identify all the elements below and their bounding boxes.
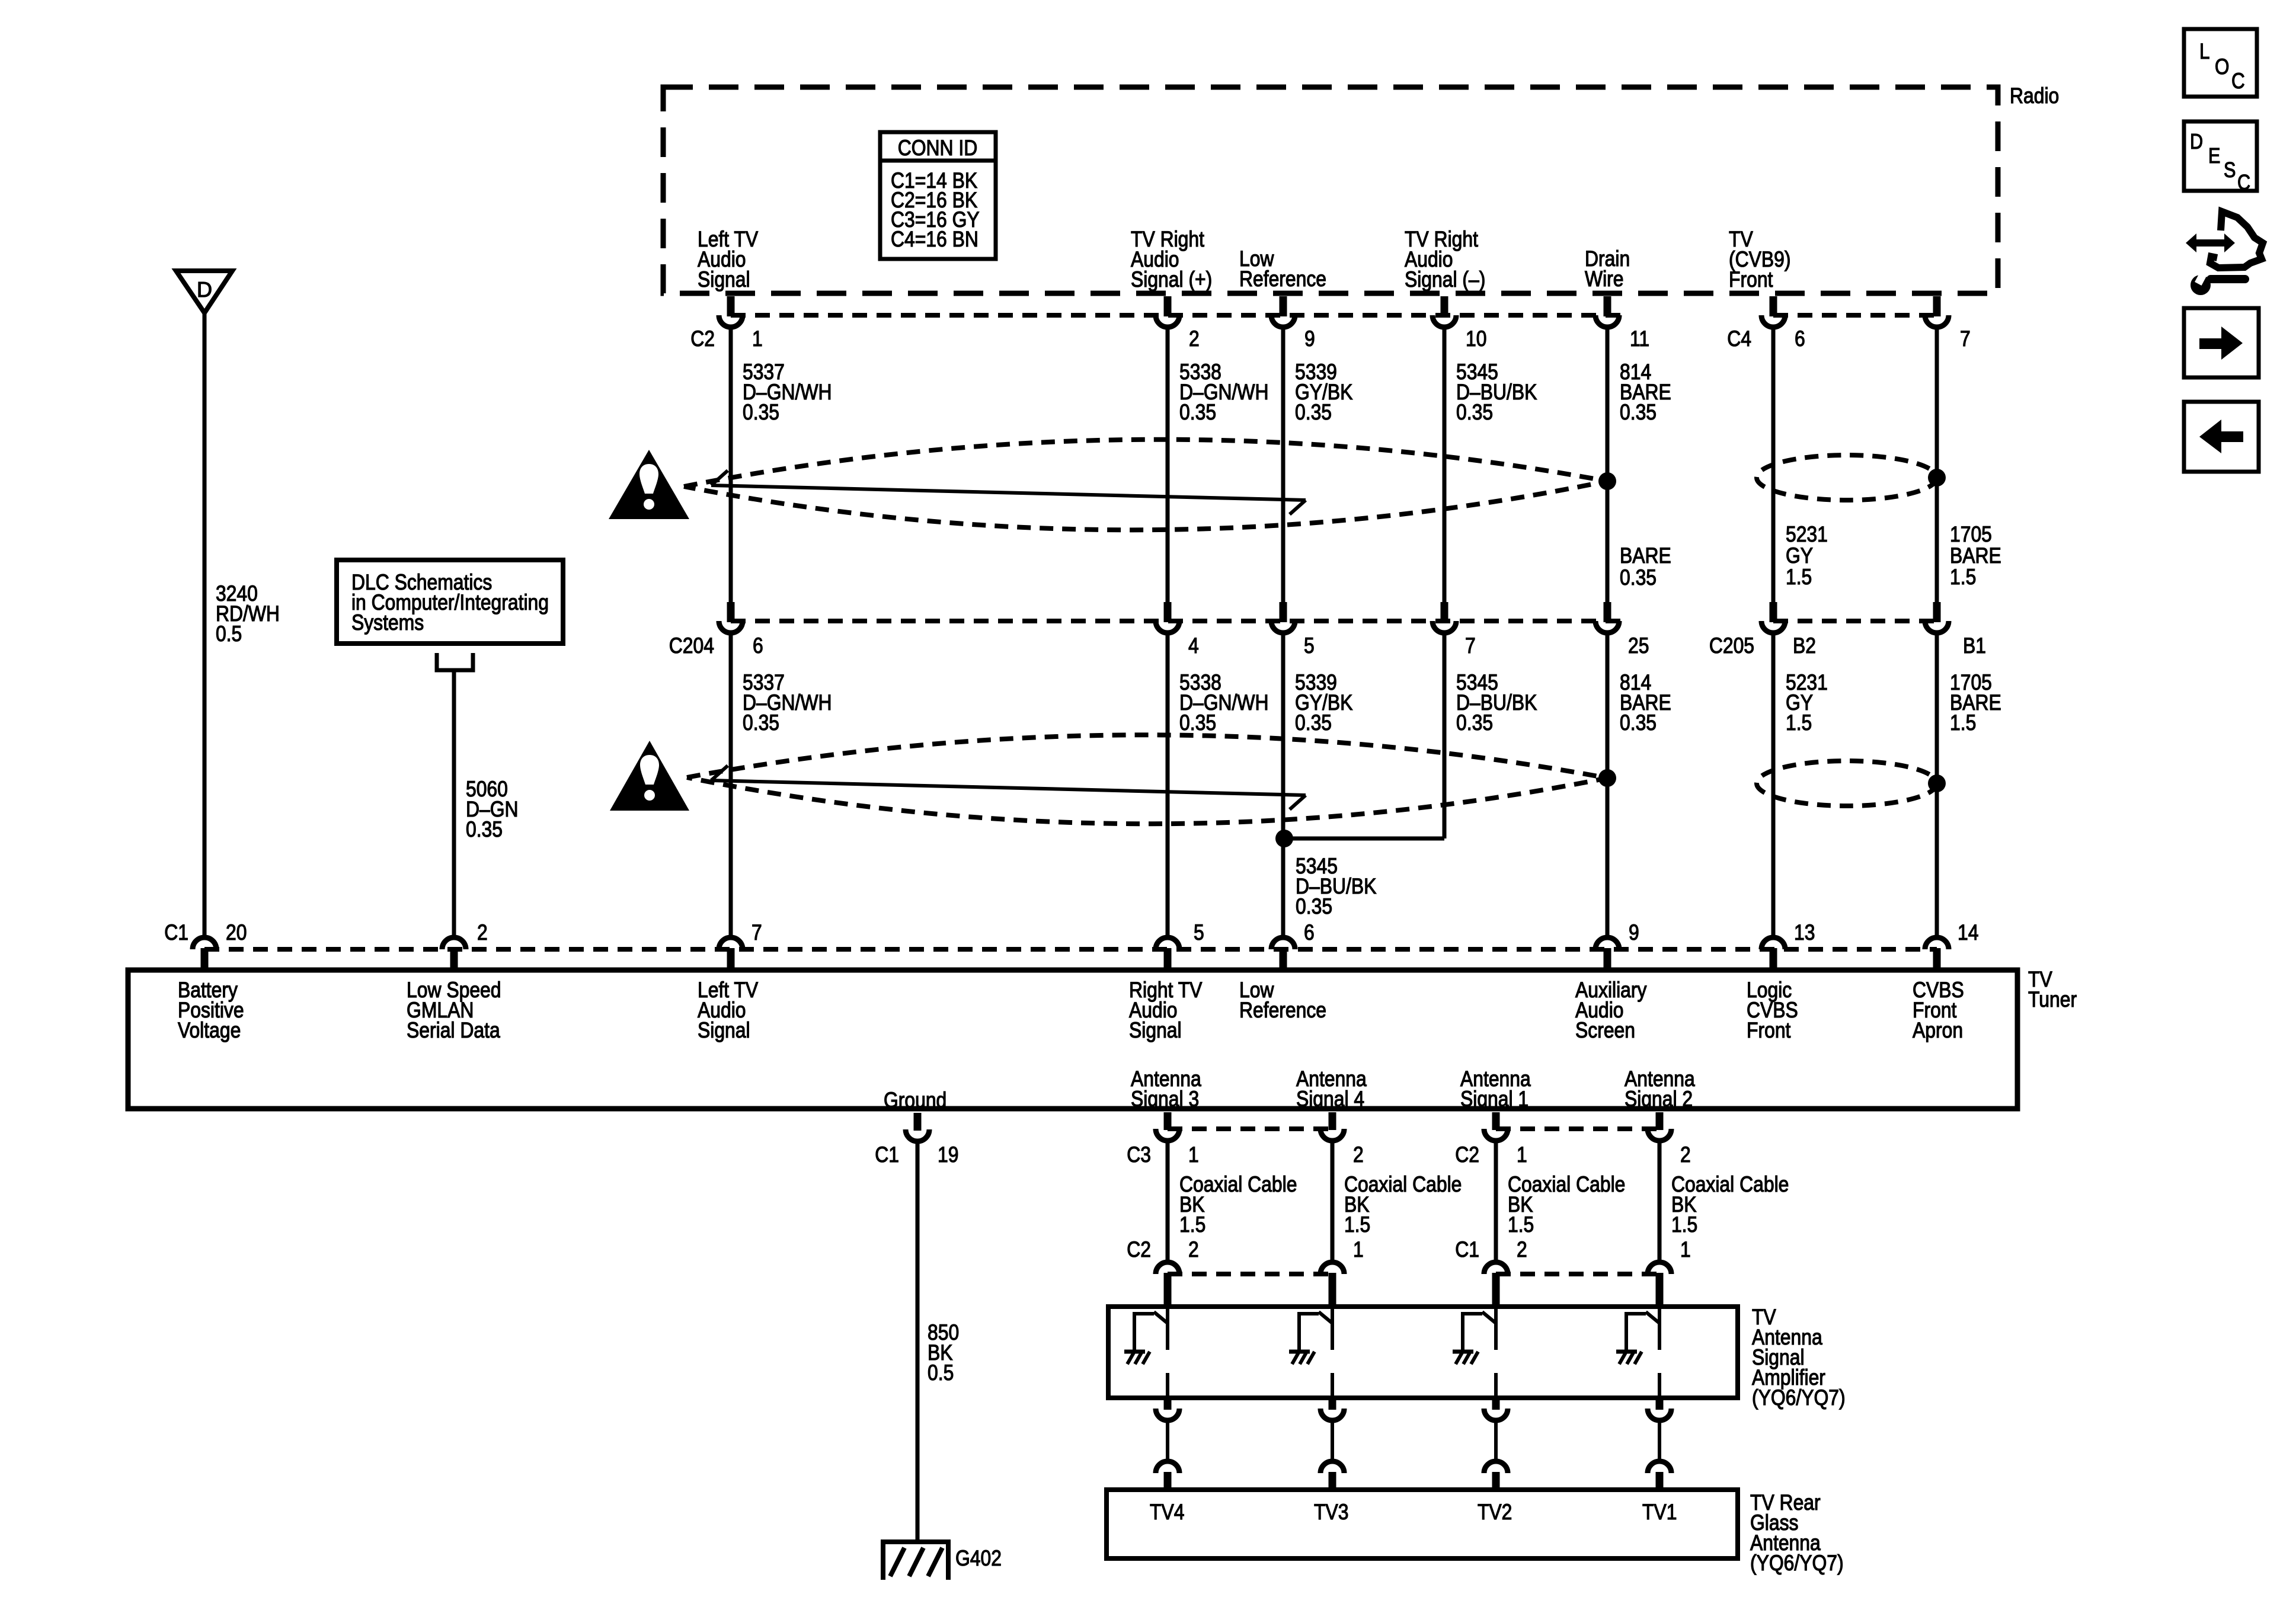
wire 5060 GMLAN — [452, 672, 456, 936]
TV Rear Glass Antenna box — [1107, 1490, 1738, 1558]
svg-text:4: 4 — [1188, 633, 1199, 658]
svg-text:(YQ6/YQ7): (YQ6/YQ7) — [1752, 1385, 1846, 1410]
wire 5338 upper segment — [1166, 327, 1170, 604]
svg-text:C1: C1 — [1455, 1237, 1479, 1262]
wire 5231 upper segment — [1771, 327, 1776, 604]
radio component dashed box — [663, 87, 1998, 293]
coax connector C2 dashed line pair B — [1496, 1126, 1659, 1131]
wire 5337 lower segment — [729, 633, 733, 936]
in-line connector pair 1 (amp to rear glass) — [1156, 1398, 1179, 1490]
svg-text:0.35: 0.35 — [1179, 710, 1216, 735]
svg-text:10: 10 — [1466, 327, 1486, 351]
connector C2 pin 2 — [1156, 296, 1179, 327]
svg-text:C4: C4 — [1727, 327, 1751, 351]
amplifier antenna element 2 — [1289, 1309, 1332, 1398]
pin numbers top row — [752, 327, 1971, 351]
connector C3 pin 2 — [1320, 1112, 1344, 1141]
svg-text:1.5: 1.5 — [1950, 565, 1976, 590]
wire 5338 lower segment — [1166, 633, 1170, 936]
svg-text:O: O — [2215, 55, 2229, 79]
svg-text:B1: B1 — [1963, 633, 1986, 658]
connector C1(coax lower) pin 2 — [1484, 1262, 1508, 1307]
connector C1 pin 5 — [1156, 937, 1179, 969]
svg-text:0.35: 0.35 — [1179, 400, 1216, 425]
connector C3 pin 1 — [1156, 1112, 1179, 1141]
pin numbers tuner top row — [226, 920, 1979, 945]
svg-text:TV3: TV3 — [1314, 1500, 1348, 1525]
svg-text:1: 1 — [1353, 1237, 1364, 1262]
amplifier antenna element 1 — [1124, 1309, 1168, 1398]
warning triangle 2 — [610, 741, 689, 811]
svg-text:1.5: 1.5 — [1786, 565, 1812, 590]
svg-text:0.35: 0.35 — [466, 817, 503, 842]
connector C1 pin 20 — [193, 937, 216, 969]
svg-text:Radio: Radio — [2010, 84, 2059, 108]
connector C2 pin 10 — [1432, 296, 1456, 327]
wire 5231 lower segment — [1771, 633, 1776, 936]
svg-text:C3: C3 — [1127, 1142, 1151, 1167]
junction dot 1705 row 2 — [1928, 774, 1946, 792]
connector C1 pin 19 (ground) — [906, 1113, 929, 1141]
wire 814 drain lower segment — [1606, 633, 1610, 936]
amplifier antenna element 3 — [1453, 1309, 1496, 1398]
amplifier antenna element 4 — [1616, 1309, 1659, 1398]
svg-text:C205: C205 — [1709, 633, 1754, 658]
svg-text:G402: G402 — [955, 1546, 1002, 1571]
connector C205 pin B1 — [1925, 602, 1949, 633]
svg-text:Apron: Apron — [1913, 1018, 1963, 1043]
connector C2(coax lower) pin 1 — [1320, 1262, 1344, 1307]
svg-text:6: 6 — [1795, 327, 1805, 351]
svg-text:C1: C1 — [164, 920, 188, 945]
svg-text:S: S — [2224, 159, 2236, 183]
connector C2 pin 1 (Left TV Audio Signal) — [719, 296, 743, 327]
svg-text:Signal 3: Signal 3 — [1131, 1087, 1199, 1112]
shielding ellipse row 1 — [684, 440, 1607, 530]
svg-text:1.5: 1.5 — [1786, 710, 1812, 735]
junction dot drain row 2 — [1598, 769, 1616, 787]
svg-text:D: D — [197, 277, 212, 302]
svg-text:2: 2 — [1188, 1237, 1199, 1262]
connector C204 body dashed line — [731, 619, 1620, 623]
connector C1 pin 13 — [1761, 937, 1785, 969]
svg-text:13: 13 — [1794, 920, 1815, 945]
DLC Schematics reference box — [337, 560, 563, 644]
svg-text:7: 7 — [1960, 327, 1971, 351]
CONN ID table — [880, 132, 996, 259]
svg-text:Wire: Wire — [1585, 267, 1624, 292]
connector C4 pin 6 — [1761, 296, 1785, 327]
svg-text:5: 5 — [1304, 633, 1315, 658]
svg-text:6: 6 — [1304, 920, 1315, 945]
icon LOC box — [2184, 29, 2257, 97]
icon diagnostic arrow and wrench — [2186, 212, 2263, 295]
wire 5339 upper segment — [1281, 327, 1285, 604]
svg-text:BARE: BARE — [1620, 543, 1671, 568]
wire 5337 upper segment — [729, 327, 733, 604]
shielding ellipse row 1 right (5231/1705) — [1757, 455, 1937, 500]
svg-text:Signal 1: Signal 1 — [1460, 1087, 1528, 1112]
pin numbers C204/C205 row — [753, 633, 1986, 658]
svg-text:C: C — [2237, 171, 2250, 195]
svg-text:Signal 2: Signal 2 — [1625, 1087, 1693, 1112]
off-page bracket below DLC box — [437, 653, 473, 670]
svg-text:1: 1 — [1517, 1142, 1527, 1167]
svg-text:2: 2 — [1680, 1142, 1691, 1167]
connector C1 body dashed line (tuner top) — [204, 947, 1937, 952]
coax lower pin numbers — [1188, 1237, 1691, 1262]
svg-text:Systems: Systems — [351, 610, 424, 635]
wire 5345 lower segment — [1443, 633, 1447, 838]
svg-text:Tuner: Tuner — [2028, 987, 2077, 1012]
connector C204 pin 4 — [1156, 602, 1179, 633]
coax cable wires — [1168, 1141, 1659, 1263]
connector C1 pin 14 — [1925, 937, 1949, 969]
svg-text:14: 14 — [1958, 920, 1978, 945]
TV Tuner box — [128, 970, 2017, 1109]
icon forward arrow box — [2184, 308, 2259, 377]
svg-text:0.35: 0.35 — [1295, 710, 1332, 735]
svg-text:1.5: 1.5 — [1950, 710, 1976, 735]
svg-text:0.5: 0.5 — [928, 1361, 954, 1385]
splice wire 5345 to low reference — [1284, 837, 1444, 841]
svg-text:7: 7 — [752, 920, 762, 945]
svg-text:Front: Front — [1747, 1018, 1791, 1043]
svg-text:Signal (–): Signal (–) — [1405, 267, 1485, 292]
svg-text:0.35: 0.35 — [743, 400, 779, 425]
connector C2 body dashed line — [731, 313, 1620, 318]
connector C2 pin 9 — [1271, 296, 1295, 327]
svg-text:C4=16 BN: C4=16 BN — [891, 227, 978, 252]
connector C204 pin 25 — [1595, 602, 1619, 633]
connector C2(coax) pin 1 — [1484, 1112, 1508, 1141]
svg-text:0.35: 0.35 — [1295, 400, 1332, 425]
svg-text:B2: B2 — [1793, 633, 1816, 658]
svg-text:0.35: 0.35 — [1456, 400, 1493, 425]
svg-text:25: 25 — [1628, 633, 1649, 658]
svg-text:TV4: TV4 — [1150, 1500, 1184, 1525]
svg-text:C2: C2 — [1455, 1142, 1479, 1167]
connector C4 body dashed line — [1773, 313, 1937, 318]
svg-text:TV2: TV2 — [1478, 1500, 1512, 1525]
svg-text:Voltage: Voltage — [178, 1018, 241, 1043]
connector C4 pin 7 — [1925, 296, 1949, 327]
connector C204 pin 6 — [719, 602, 743, 633]
svg-text:E: E — [2208, 145, 2220, 168]
connector C1 pin 2 — [442, 937, 466, 969]
connector C1 pin 6 — [1271, 937, 1295, 969]
svg-text:TV1: TV1 — [1642, 1500, 1677, 1525]
in-line connector pair 3 (amp to rear glass) — [1484, 1398, 1508, 1490]
connector C2 pin 11 — [1595, 296, 1619, 327]
icon DESC box — [2184, 121, 2257, 195]
coax connector C2 lower dashed line pair A — [1168, 1272, 1332, 1276]
coax connector C1 lower dashed line pair B — [1496, 1272, 1659, 1276]
svg-text:L: L — [2199, 40, 2209, 64]
svg-text:Signal: Signal — [698, 267, 750, 292]
wire 814 drain upper segment — [1606, 327, 1610, 604]
icon back arrow box — [2184, 402, 2259, 472]
wire 5339 lower segment — [1281, 633, 1285, 936]
wire 1705 upper segment — [1935, 327, 1939, 604]
svg-text:Front: Front — [1729, 267, 1773, 292]
wire 1705 lower segment — [1935, 633, 1939, 936]
connector C205 body dashed line — [1773, 619, 1937, 623]
svg-text:(YQ6/YQ7): (YQ6/YQ7) — [1750, 1551, 1844, 1576]
wire 850 ground — [916, 1141, 920, 1541]
svg-text:C2: C2 — [690, 327, 715, 351]
svg-text:9: 9 — [1629, 920, 1639, 945]
svg-text:0.35: 0.35 — [1620, 400, 1657, 425]
svg-text:C204: C204 — [669, 633, 714, 658]
svg-text:1.5: 1.5 — [1671, 1212, 1697, 1237]
junction dot splice row 2 — [1275, 830, 1293, 847]
wire 3240 battery positive — [203, 313, 207, 936]
svg-text:C2: C2 — [1127, 1237, 1151, 1262]
svg-text:Ground: Ground — [884, 1088, 946, 1113]
connector C205 pin B2 — [1761, 602, 1785, 633]
svg-text:1: 1 — [1188, 1142, 1199, 1167]
svg-text:19: 19 — [938, 1142, 958, 1167]
svg-text:11: 11 — [1630, 327, 1649, 351]
svg-text:Signal (+): Signal (+) — [1131, 267, 1212, 292]
svg-text:0.5: 0.5 — [216, 622, 242, 646]
twisted pair arrow row 2 — [711, 766, 1306, 809]
coax connector C3 dashed line pair A — [1168, 1126, 1332, 1131]
svg-text:Serial Data: Serial Data — [407, 1018, 500, 1043]
svg-text:1: 1 — [1680, 1237, 1691, 1262]
svg-text:2: 2 — [1517, 1237, 1527, 1262]
svg-text:1.5: 1.5 — [1344, 1212, 1370, 1237]
in-line connector pair 2 (amp to rear glass) — [1320, 1398, 1344, 1490]
shielding ellipse row 2 — [687, 735, 1607, 824]
ground G402 symbol — [883, 1542, 948, 1580]
junction dot 1705 row 1 — [1928, 469, 1946, 486]
connector C1(coax lower) pin 1 — [1648, 1262, 1671, 1307]
svg-text:6: 6 — [753, 633, 763, 658]
svg-text:1: 1 — [752, 327, 763, 351]
TV Antenna Signal Amplifier box — [1108, 1307, 1738, 1398]
wire 5345 upper segment — [1443, 327, 1447, 604]
warning triangle 1 — [609, 450, 689, 519]
svg-text:0.35: 0.35 — [1296, 894, 1332, 919]
svg-text:1.5: 1.5 — [1508, 1212, 1534, 1237]
svg-text:Signal 4: Signal 4 — [1296, 1087, 1364, 1112]
svg-text:0.35: 0.35 — [1456, 710, 1493, 735]
junction dot drain row 1 — [1598, 472, 1616, 490]
svg-text:Signal: Signal — [698, 1018, 750, 1043]
svg-text:0.35: 0.35 — [1620, 565, 1657, 590]
svg-text:2: 2 — [477, 920, 488, 945]
twisted pair arrow row 1 — [711, 470, 1306, 514]
svg-text:0.35: 0.35 — [1620, 710, 1657, 735]
svg-text:C1: C1 — [875, 1142, 899, 1167]
svg-text:2: 2 — [1189, 327, 1200, 351]
connector C204 pin 7 — [1432, 602, 1456, 633]
connector C204 pin 5 — [1271, 602, 1295, 633]
svg-text:Reference: Reference — [1239, 267, 1326, 292]
svg-text:7: 7 — [1465, 633, 1476, 658]
svg-text:9: 9 — [1304, 327, 1315, 351]
svg-text:5: 5 — [1194, 920, 1204, 945]
svg-text:CONN ID: CONN ID — [898, 136, 978, 161]
connector C1 pin 7 — [719, 937, 743, 969]
svg-text:1.5: 1.5 — [1179, 1212, 1205, 1237]
svg-text:0.35: 0.35 — [743, 710, 779, 735]
svg-text:20: 20 — [226, 920, 247, 945]
svg-text:2: 2 — [1353, 1142, 1364, 1167]
connector C2(coax) pin 2 — [1648, 1112, 1671, 1141]
svg-text:C: C — [2231, 69, 2245, 94]
antenna feed triangle D — [176, 271, 232, 313]
connector C1 pin 9 — [1595, 937, 1619, 969]
svg-text:Screen: Screen — [1575, 1018, 1635, 1043]
coax upper pin numbers — [1188, 1142, 1691, 1167]
shielding ellipse row 2 right (5231/1705) — [1757, 761, 1937, 806]
svg-text:Signal: Signal — [1129, 1018, 1182, 1043]
svg-text:D: D — [2190, 130, 2203, 154]
connector C2(coax lower) pin 2 — [1156, 1262, 1179, 1307]
in-line connector pair 4 (amp to rear glass) — [1648, 1398, 1671, 1490]
svg-text:Reference: Reference — [1239, 998, 1326, 1023]
